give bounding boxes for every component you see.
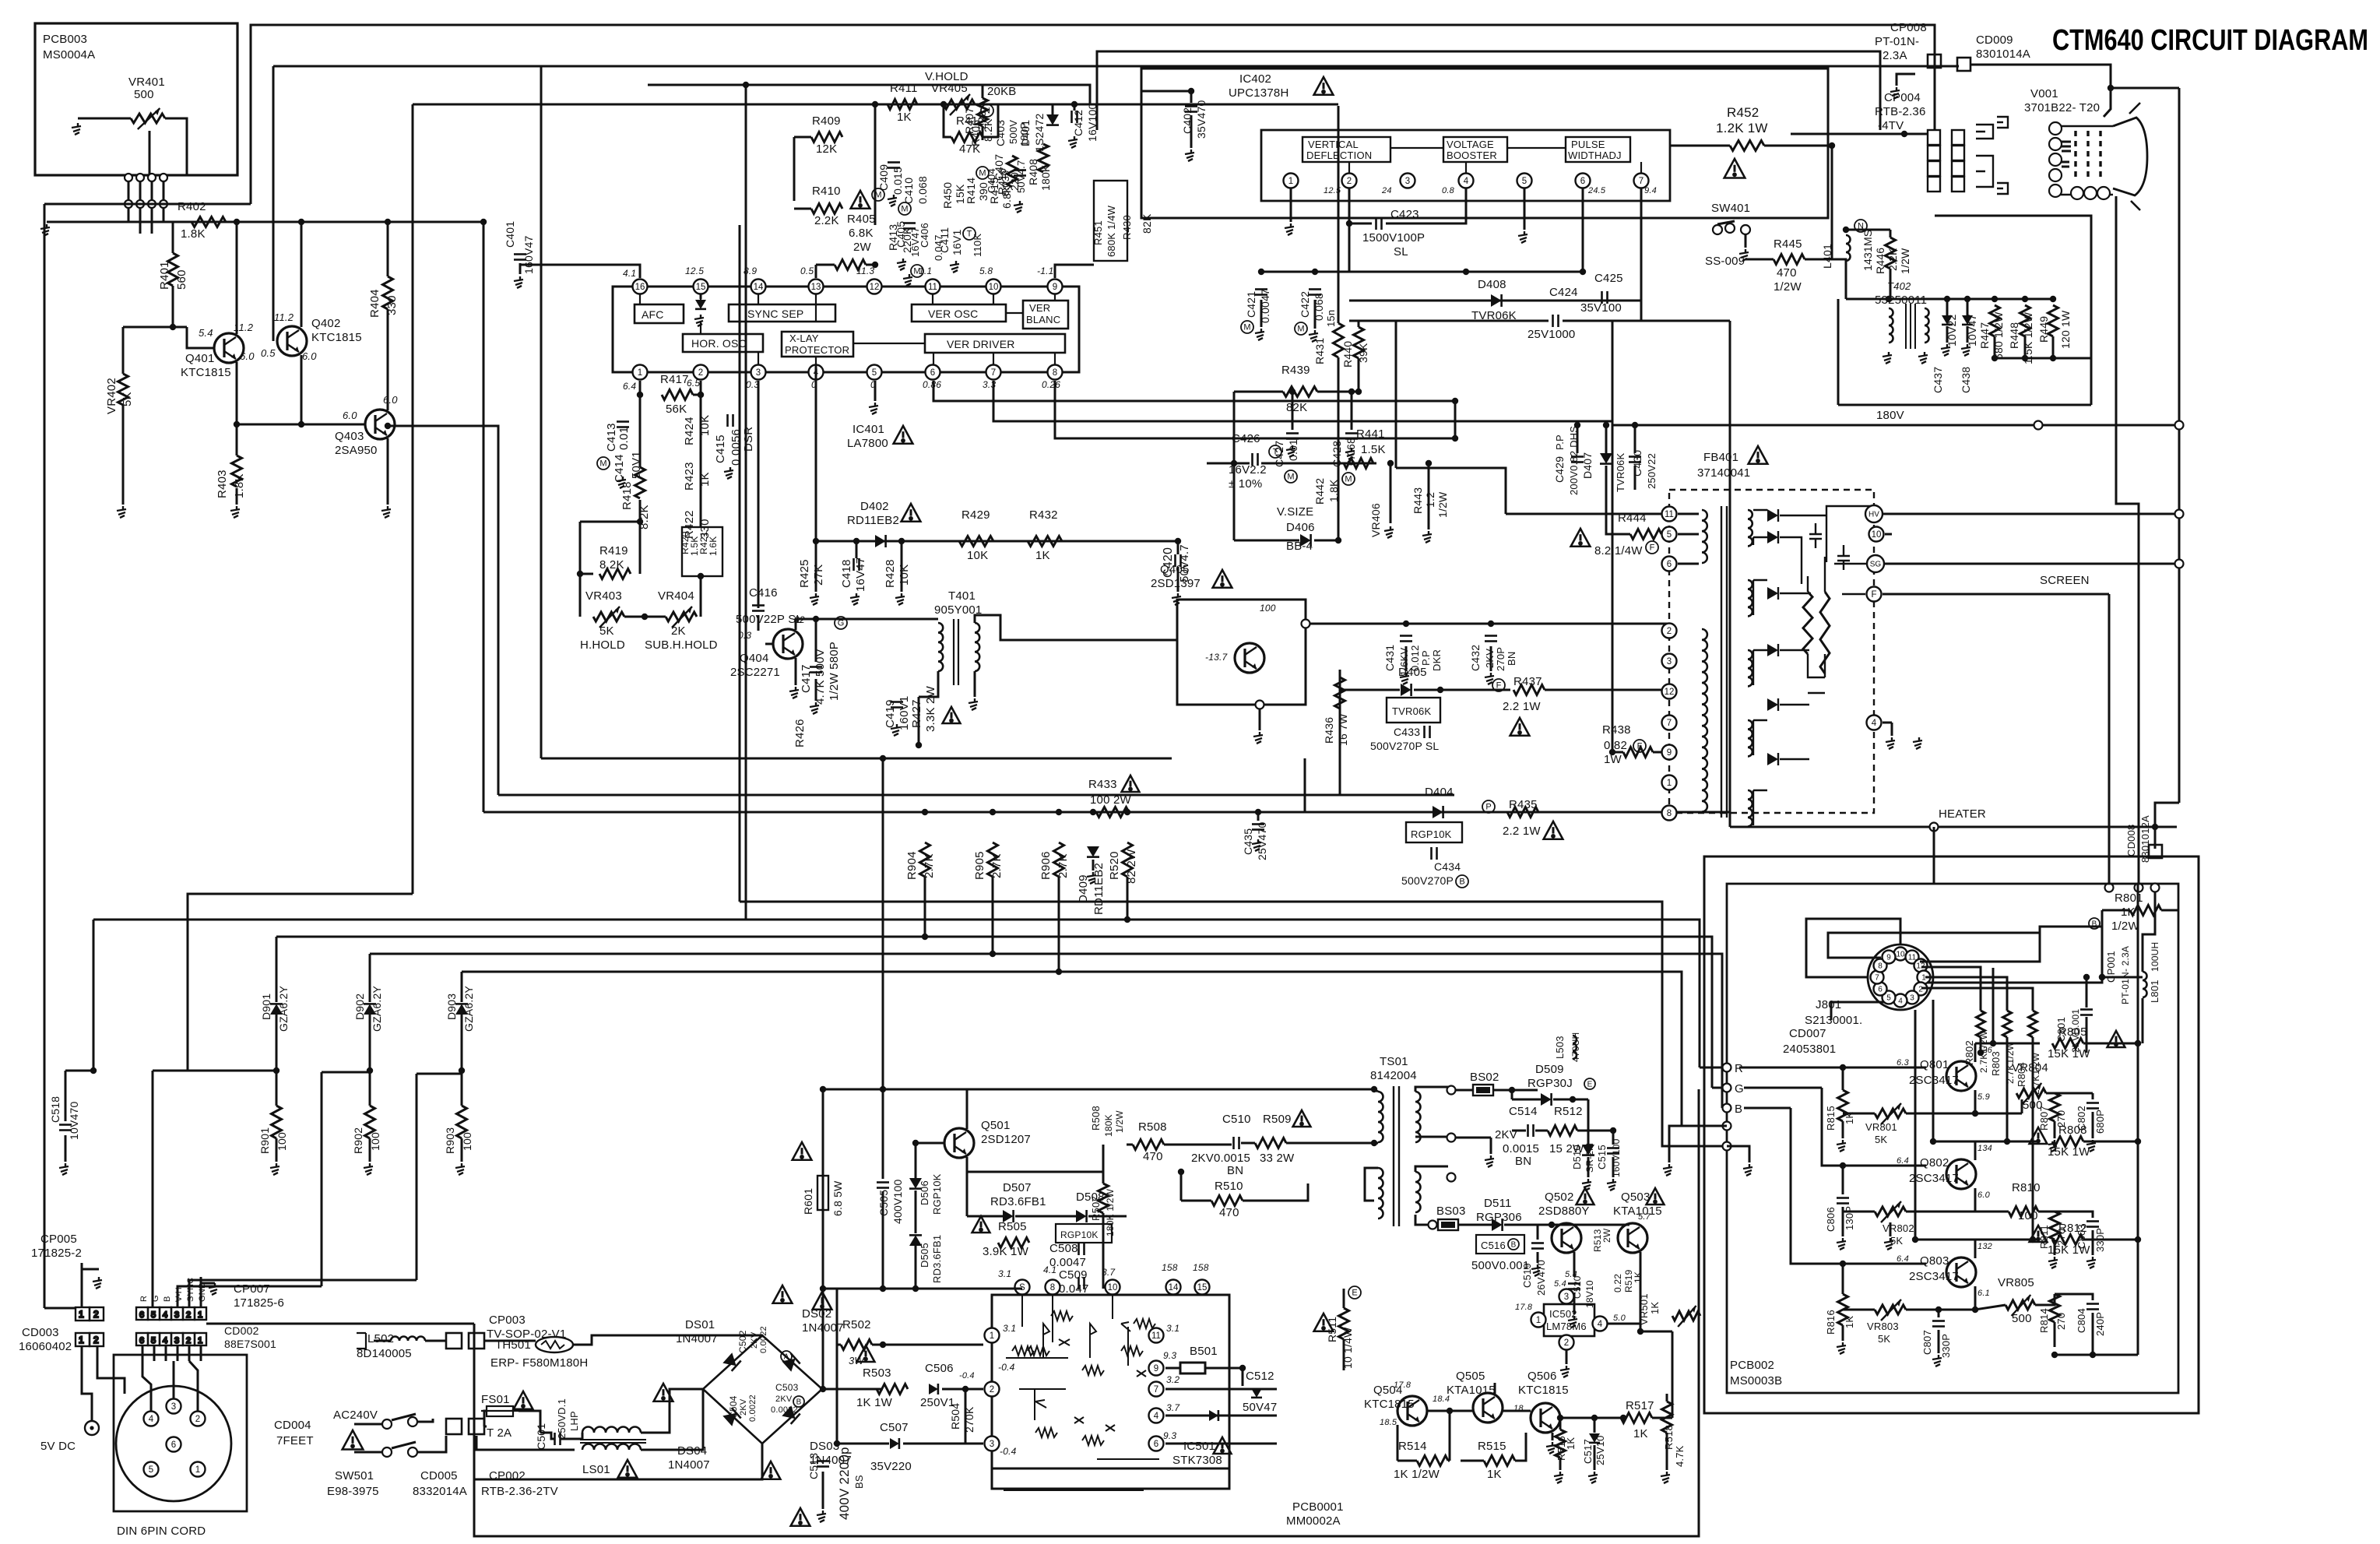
wire pin4 out (1165, 1415, 1277, 1417)
wire ts sec2 bot (1415, 1215, 1429, 1225)
wire vr802 r (1906, 1211, 1975, 1213)
svg-text:KTC1815: KTC1815 (1364, 1398, 1415, 1411)
node heater (1930, 823, 1939, 832)
wire CP008 gnd stub (1897, 74, 1915, 86)
svg-text:L401: L401 (1821, 244, 1833, 269)
FB401 secondary winding 5 (1748, 790, 1752, 826)
wire sec rail bottom (1995, 357, 2091, 360)
svg-text:C501: C501 (535, 1423, 547, 1450)
IC501 internals (1004, 1296, 1159, 1490)
svg-text:1: 1 (79, 1309, 84, 1320)
wire c807 up (1938, 1310, 1940, 1317)
svg-text:C801: C801 (2055, 1017, 2067, 1042)
transistor Q503 KTA1015 (1618, 1223, 1647, 1253)
wire pin7 out (1165, 1388, 1277, 1391)
svg-text:2SD1207: 2SD1207 (981, 1133, 1031, 1146)
wire Q403 base bus (237, 424, 366, 426)
svg-text:9: 9 (1667, 748, 1672, 758)
VER BLANC block (1023, 301, 1068, 329)
IC401 body (613, 287, 1079, 372)
svg-text:R429: R429 (961, 508, 990, 522)
IC402 arrows (1349, 148, 1641, 173)
svg-text:470: 470 (1777, 266, 1797, 280)
wire r516 up (1559, 1418, 1562, 1430)
wire R419-R402 link (580, 521, 640, 523)
warning R437 (1510, 718, 1530, 736)
wire vr501 rail (1640, 1331, 1672, 1333)
node c801 (2083, 974, 2090, 980)
arrows inside IC401 (640, 294, 1055, 364)
5V DC bullseye (85, 1421, 99, 1435)
wire heater rail (1730, 826, 2177, 828)
wire ts sec1 top (1415, 1087, 1451, 1092)
wire R902 gnd (369, 1138, 371, 1162)
IC401 pin 4 (809, 365, 824, 380)
node s2 (912, 1285, 919, 1292)
wire R901 gnd (276, 1138, 278, 1162)
svg-text:6: 6 (1878, 986, 1883, 994)
wire PCB003 pin1 stub (128, 175, 130, 206)
node C421 (1258, 269, 1264, 275)
node pin2 (698, 392, 704, 398)
svg-text:2: 2 (186, 1310, 191, 1320)
wire d507 chain (978, 1215, 1003, 1218)
wire d509 lnk (1512, 1099, 1541, 1101)
wire Q501 emitter right (966, 1157, 969, 1172)
IC502 pin4 (1593, 1317, 1608, 1331)
wire R906 down (1058, 877, 1060, 972)
svg-text:2.7K: 2.7K (923, 853, 936, 878)
node crt g entry (2135, 884, 2143, 892)
ferrite bead B501 (1180, 1363, 1205, 1373)
resistor R401 (168, 253, 178, 286)
wire vhold rail (875, 104, 1032, 106)
resistor R515 (1484, 1456, 1515, 1466)
DIN pin 1 (191, 1462, 206, 1477)
svg-text:C412: C412 (1072, 110, 1085, 136)
svg-text:PROTECTOR: PROTECTOR (785, 344, 849, 356)
ground aux1 (1663, 1164, 1672, 1176)
wire center box bottom B (498, 794, 1454, 797)
svg-text:14: 14 (754, 283, 764, 292)
svg-text:1/2W: 1/2W (1774, 280, 1802, 294)
svg-text:B: B (1735, 1103, 1742, 1116)
wire j801 loop2 (1828, 933, 2040, 958)
wire c501 b (561, 1433, 582, 1439)
wire c802 up (2092, 1093, 2094, 1099)
wire stub d903 (417, 1073, 462, 1075)
svg-text:R439: R439 (1281, 364, 1310, 377)
transistor Q502 2SD880Y (1552, 1223, 1581, 1253)
svg-text:1: 1 (195, 1465, 200, 1475)
wire fb pin5 stub (1678, 533, 1699, 536)
resistor R905 (988, 842, 998, 877)
svg-text:8301014A: 8301014A (1976, 47, 2030, 61)
wire R446 top (1890, 230, 1892, 237)
wire heater box (1935, 216, 2091, 405)
svg-text:PCB003: PCB003 (43, 33, 87, 46)
capacitor C405 (903, 223, 916, 229)
svg-text:BS02: BS02 (1470, 1071, 1499, 1084)
svg-text:B: B (1459, 878, 1464, 887)
wire 1793 vert (1395, 321, 1397, 468)
switch SW501 pole1 b (408, 1417, 417, 1426)
J801 pin 11 (1906, 951, 1919, 964)
svg-text:1.8K: 1.8K (181, 227, 206, 241)
IC501 pin 15 (1195, 1280, 1210, 1295)
mark T C426 (1269, 445, 1281, 458)
svg-text:FB401: FB401 (1703, 451, 1738, 464)
wire j801 k1 (1806, 919, 1900, 977)
transistor Q501 2SD1207 (944, 1128, 974, 1158)
resistor R440 vert (1354, 327, 1364, 358)
T402 core (1906, 304, 1915, 349)
node R419 left (577, 571, 583, 577)
wire z2 (1967, 299, 1969, 315)
wire bus x1134 (882, 758, 884, 1089)
svg-text:R414: R414 (965, 178, 977, 204)
resistor R503 (877, 1384, 908, 1395)
svg-text:C509: C509 (1059, 1268, 1088, 1282)
svg-text:12: 12 (1665, 688, 1675, 697)
svg-text:11: 11 (1665, 510, 1674, 519)
resistor R511 (1339, 1308, 1349, 1339)
wire bridge minus (474, 1444, 762, 1479)
wire r812 out (2083, 1239, 2138, 1241)
node R447 bot (1992, 355, 1998, 361)
svg-text:1: 1 (1288, 177, 1293, 186)
wire vr802 l (1843, 1211, 1875, 1213)
wire pin2 down (1349, 188, 1372, 223)
node R905 bot (990, 951, 996, 957)
node c507 l (834, 1440, 840, 1447)
resistor R507 sym (1099, 1183, 1109, 1213)
svg-text:C502: C502 (737, 1330, 748, 1353)
wire D903 up (461, 972, 463, 1002)
FB401 node 4 (1867, 716, 1882, 730)
ground C803 (2086, 1257, 2096, 1268)
svg-text:37140041: 37140041 (1697, 466, 1750, 480)
wire ac a (354, 1423, 382, 1426)
svg-text:R601: R601 (802, 1188, 814, 1215)
svg-text:RGP30J: RGP30J (1527, 1077, 1573, 1090)
svg-text:1: 1 (1667, 779, 1672, 788)
ground R425 (810, 593, 819, 605)
wire VR402 top (122, 327, 125, 374)
J801 pin 5 (1883, 990, 1896, 1004)
FB401 pin 11 (1662, 507, 1677, 522)
wire R438 right (1653, 751, 1669, 754)
resistor R436 sym (1335, 677, 1345, 709)
node VR405 L (940, 101, 947, 107)
wire gnd pin stub (200, 1277, 202, 1307)
svg-text:C807: C807 (1921, 1330, 1933, 1355)
capacitor C428 (1345, 434, 1358, 439)
wire VSIZE vert (1233, 392, 1236, 540)
svg-text:3: 3 (171, 1402, 176, 1412)
wire bs02 in (1456, 1089, 1473, 1092)
wire PCB003 pin4 stub (163, 175, 165, 206)
svg-text:SW501: SW501 (335, 1469, 374, 1482)
svg-text:8332014A: 8332014A (413, 1485, 467, 1498)
svg-text:56K: 56K (666, 403, 687, 416)
wire z1b (1946, 326, 1949, 343)
resistor R518 (1662, 1402, 1672, 1433)
svg-text:7: 7 (991, 368, 996, 378)
warning IC401 (894, 426, 913, 444)
node aux1 entry (1723, 1122, 1731, 1131)
warning R505 (972, 1216, 990, 1233)
node rail-pin6 (1580, 269, 1586, 275)
capacitor C515 (1607, 1148, 1619, 1154)
resistor R418 (635, 467, 645, 498)
ground C405 (903, 274, 912, 286)
wire stub c518 (65, 1070, 93, 1072)
wire R401 top (172, 222, 174, 253)
node R906 top (1056, 809, 1062, 815)
svg-text:M: M (874, 191, 881, 200)
svg-text:1.1: 1.1 (919, 266, 932, 276)
wire R425 (815, 541, 817, 592)
switch SW501 lever1 (392, 1414, 416, 1420)
svg-text:1/2W: 1/2W (1436, 491, 1449, 518)
node r801 (2099, 974, 2105, 980)
FB401 HV ladder wires (1753, 506, 1873, 825)
svg-text:VOLTAGE: VOLTAGE (1447, 139, 1494, 150)
wire R404 bot (387, 309, 389, 410)
node Q404 out (813, 616, 819, 622)
svg-text:C414: C414 (613, 454, 626, 483)
svg-text:C806: C806 (1825, 1207, 1837, 1232)
wire D401 (1052, 104, 1054, 115)
svg-text:B: B (163, 1296, 172, 1302)
wire r816 dn (1842, 1325, 1844, 1341)
connector pin row2-1 (125, 200, 132, 208)
wire C401 link (520, 264, 640, 266)
connector CP004 mating glyphs (1976, 117, 2008, 194)
node cd008 entry (2151, 884, 2160, 892)
svg-text:R410: R410 (812, 185, 841, 198)
svg-text:R901: R901 (258, 1127, 271, 1154)
mark M C427 (1285, 470, 1297, 483)
svg-text:IC502: IC502 (1549, 1308, 1577, 1320)
DIN pin 2 (191, 1412, 206, 1426)
capacitor C416 (752, 606, 765, 611)
ground C420 (1172, 593, 1181, 605)
resistor R811 (2050, 1212, 2060, 1240)
svg-text:A: A (784, 1352, 789, 1361)
svg-text:4: 4 (1872, 719, 1877, 728)
connector CP007 row (136, 1307, 206, 1320)
svg-text:1: 1 (79, 1335, 84, 1345)
wire v413 to cp007 (178, 1286, 322, 1307)
mark P R435 (1482, 800, 1495, 813)
node j801 r801 (2099, 974, 2105, 980)
svg-text:11: 11 (1151, 1331, 1161, 1341)
node R428 (898, 538, 905, 544)
svg-text:3.1: 3.1 (1003, 1323, 1016, 1334)
T401 core (954, 619, 958, 685)
node c806 (1840, 1162, 1846, 1169)
svg-text:0.82: 0.82 (1604, 739, 1627, 752)
wire C505 up (882, 1089, 884, 1179)
wire q503 down (1640, 1252, 1642, 1331)
svg-text:2: 2 (990, 1385, 994, 1395)
svg-text:1N4007: 1N4007 (676, 1332, 718, 1345)
svg-text:VER DRIVER: VER DRIVER (947, 338, 1015, 350)
resistor R404 (383, 276, 393, 309)
TS01 secondary lower (1415, 1172, 1421, 1212)
node bottom A (880, 755, 886, 761)
node R803 (2004, 1138, 2010, 1145)
CRT V001 bell (2113, 118, 2147, 195)
FB401 pin 7 (1662, 716, 1677, 730)
wire q502 emitter dn (1573, 1252, 1576, 1277)
wire c515 up (1612, 1131, 1615, 1145)
wire cp005 stub (81, 1263, 83, 1307)
svg-text:V001: V001 (2030, 87, 2058, 100)
svg-text:C405: C405 (895, 221, 907, 248)
TS01 primary lower (1378, 1168, 1383, 1219)
node Q402-Q403 (298, 421, 304, 427)
resistor R431 (1334, 323, 1344, 357)
resistor R801 sym (2130, 906, 2161, 916)
svg-text:DSR: DSR (742, 427, 755, 452)
node snub (1371, 1140, 1377, 1146)
svg-text:R808: R808 (2058, 1124, 2087, 1137)
wire C422 dn (1314, 300, 1317, 329)
svg-text:132: 132 (1977, 1242, 1992, 1251)
connector pin row1-2 (136, 174, 144, 181)
node R438 (1609, 749, 1615, 755)
ground T401 sec (969, 698, 978, 710)
warning CD004 (343, 1430, 364, 1450)
node D407 top (1603, 422, 1609, 428)
svg-text:G: G (151, 1295, 160, 1302)
svg-text:E: E (1352, 1289, 1357, 1298)
ground VR802 (1884, 1238, 1893, 1250)
svg-text:R427: R427 (910, 699, 923, 728)
capacitor C802 (2086, 1103, 2099, 1109)
node screen entry (2105, 884, 2114, 892)
svg-text:E: E (1587, 1080, 1593, 1089)
wire pin15 dn (700, 294, 702, 299)
svg-text:R443: R443 (1411, 487, 1424, 514)
svg-text:C403: C403 (994, 120, 1007, 146)
wire r514 l (1397, 1460, 1417, 1462)
svg-text:4.7K: 4.7K (1674, 1445, 1686, 1467)
svg-text:TS01: TS01 (1380, 1055, 1408, 1068)
wire top bus B (273, 65, 1959, 68)
CRT base pin 1 (2071, 187, 2083, 199)
svg-text:C430: C430 (1631, 450, 1644, 477)
wire 180v bot (2137, 1317, 2139, 1355)
svg-text:10K: 10K (898, 564, 911, 586)
CRT pin circle 1 (2049, 122, 2062, 135)
wire pin2 down (700, 381, 702, 514)
wire cd002 pin5 down (153, 1345, 156, 1361)
wire sec1 ret (1456, 1137, 1491, 1139)
mark M C404 (976, 167, 989, 179)
capacitor C806 (1837, 1198, 1849, 1204)
svg-text:IC401: IC401 (853, 423, 884, 436)
svg-text:BN: BN (1227, 1164, 1243, 1177)
svg-text:20KB: 20KB (987, 85, 1017, 98)
svg-text:R504: R504 (949, 1403, 961, 1430)
ground R516 (1554, 1472, 1563, 1483)
svg-text:R510: R510 (1215, 1180, 1243, 1193)
node CP004 (1901, 131, 1907, 137)
node C429 top (1574, 422, 1580, 428)
svg-text:RD11EB2: RD11EB2 (847, 514, 899, 527)
wire q505-q506 (1503, 1410, 1531, 1412)
wire c802 lnk (2055, 1092, 2093, 1095)
svg-text:2: 2 (93, 1309, 99, 1320)
wire SW401 stub (1745, 234, 1747, 248)
svg-text:5.7: 5.7 (1638, 1212, 1651, 1222)
svg-text:1: 1 (1536, 1316, 1541, 1325)
resistor R409 (811, 132, 842, 142)
svg-text:-4TV: -4TV (1878, 119, 1904, 132)
resistor R403 (232, 455, 242, 487)
resistor R444 (1630, 529, 1661, 540)
ferrite bead BS03 (1438, 1219, 1458, 1230)
IC401 pin 6 (926, 365, 940, 380)
capacitor C509 (1079, 1277, 1085, 1289)
wire D505 chain1 (915, 1143, 917, 1178)
wire band x120 (93, 920, 95, 1071)
svg-text:100UH: 100UH (2150, 942, 2160, 972)
node q506 out (1620, 1415, 1626, 1421)
wire C432 dn (1490, 646, 1492, 671)
svg-text:RTB-2.36-2TV: RTB-2.36-2TV (481, 1485, 558, 1498)
ground sec1 (1485, 1155, 1494, 1167)
svg-text:D902: D902 (353, 994, 366, 1020)
node C418 (853, 538, 860, 544)
IC501 pin 10 (1106, 1280, 1120, 1295)
wire r816 up (1842, 1264, 1844, 1294)
wire z1 (1946, 299, 1949, 315)
node T402 in (1886, 296, 1892, 302)
wire R511 dn (1343, 1339, 1345, 1370)
wire din wire a (142, 1361, 151, 1411)
mark B R801 (2089, 918, 2100, 929)
svg-text:15n: 15n (1325, 310, 1337, 327)
svg-text:2SA950: 2SA950 (335, 444, 378, 457)
svg-text:9.3: 9.3 (1163, 1350, 1176, 1361)
svg-text:2: 2 (698, 368, 703, 378)
ground C409 (888, 195, 897, 206)
svg-text:2.7K: 2.7K (1056, 853, 1070, 878)
svg-text:6.0: 6.0 (343, 410, 357, 421)
svg-text:H.HOLD: H.HOLD (580, 638, 625, 652)
wire ts01 pri lower (1365, 1168, 1378, 1201)
wire cp003 to th (484, 1340, 536, 1342)
svg-text:500V270P: 500V270P (1401, 874, 1454, 887)
svg-text:120 1W: 120 1W (2059, 310, 2072, 349)
wire R436 vert (1339, 670, 1341, 795)
wire R417 right (693, 394, 701, 396)
svg-text:130P: 130P (1844, 1206, 1855, 1230)
resistor R904 (920, 842, 930, 877)
warning R511 (1314, 1314, 1334, 1331)
svg-text:R512: R512 (1554, 1105, 1583, 1118)
node d509 in (1509, 1087, 1515, 1093)
svg-text:110K: 110K (972, 234, 983, 257)
wire C421 rail (1261, 271, 1583, 273)
IC402 outer box (1141, 69, 1828, 218)
resistor R402 (192, 217, 226, 227)
